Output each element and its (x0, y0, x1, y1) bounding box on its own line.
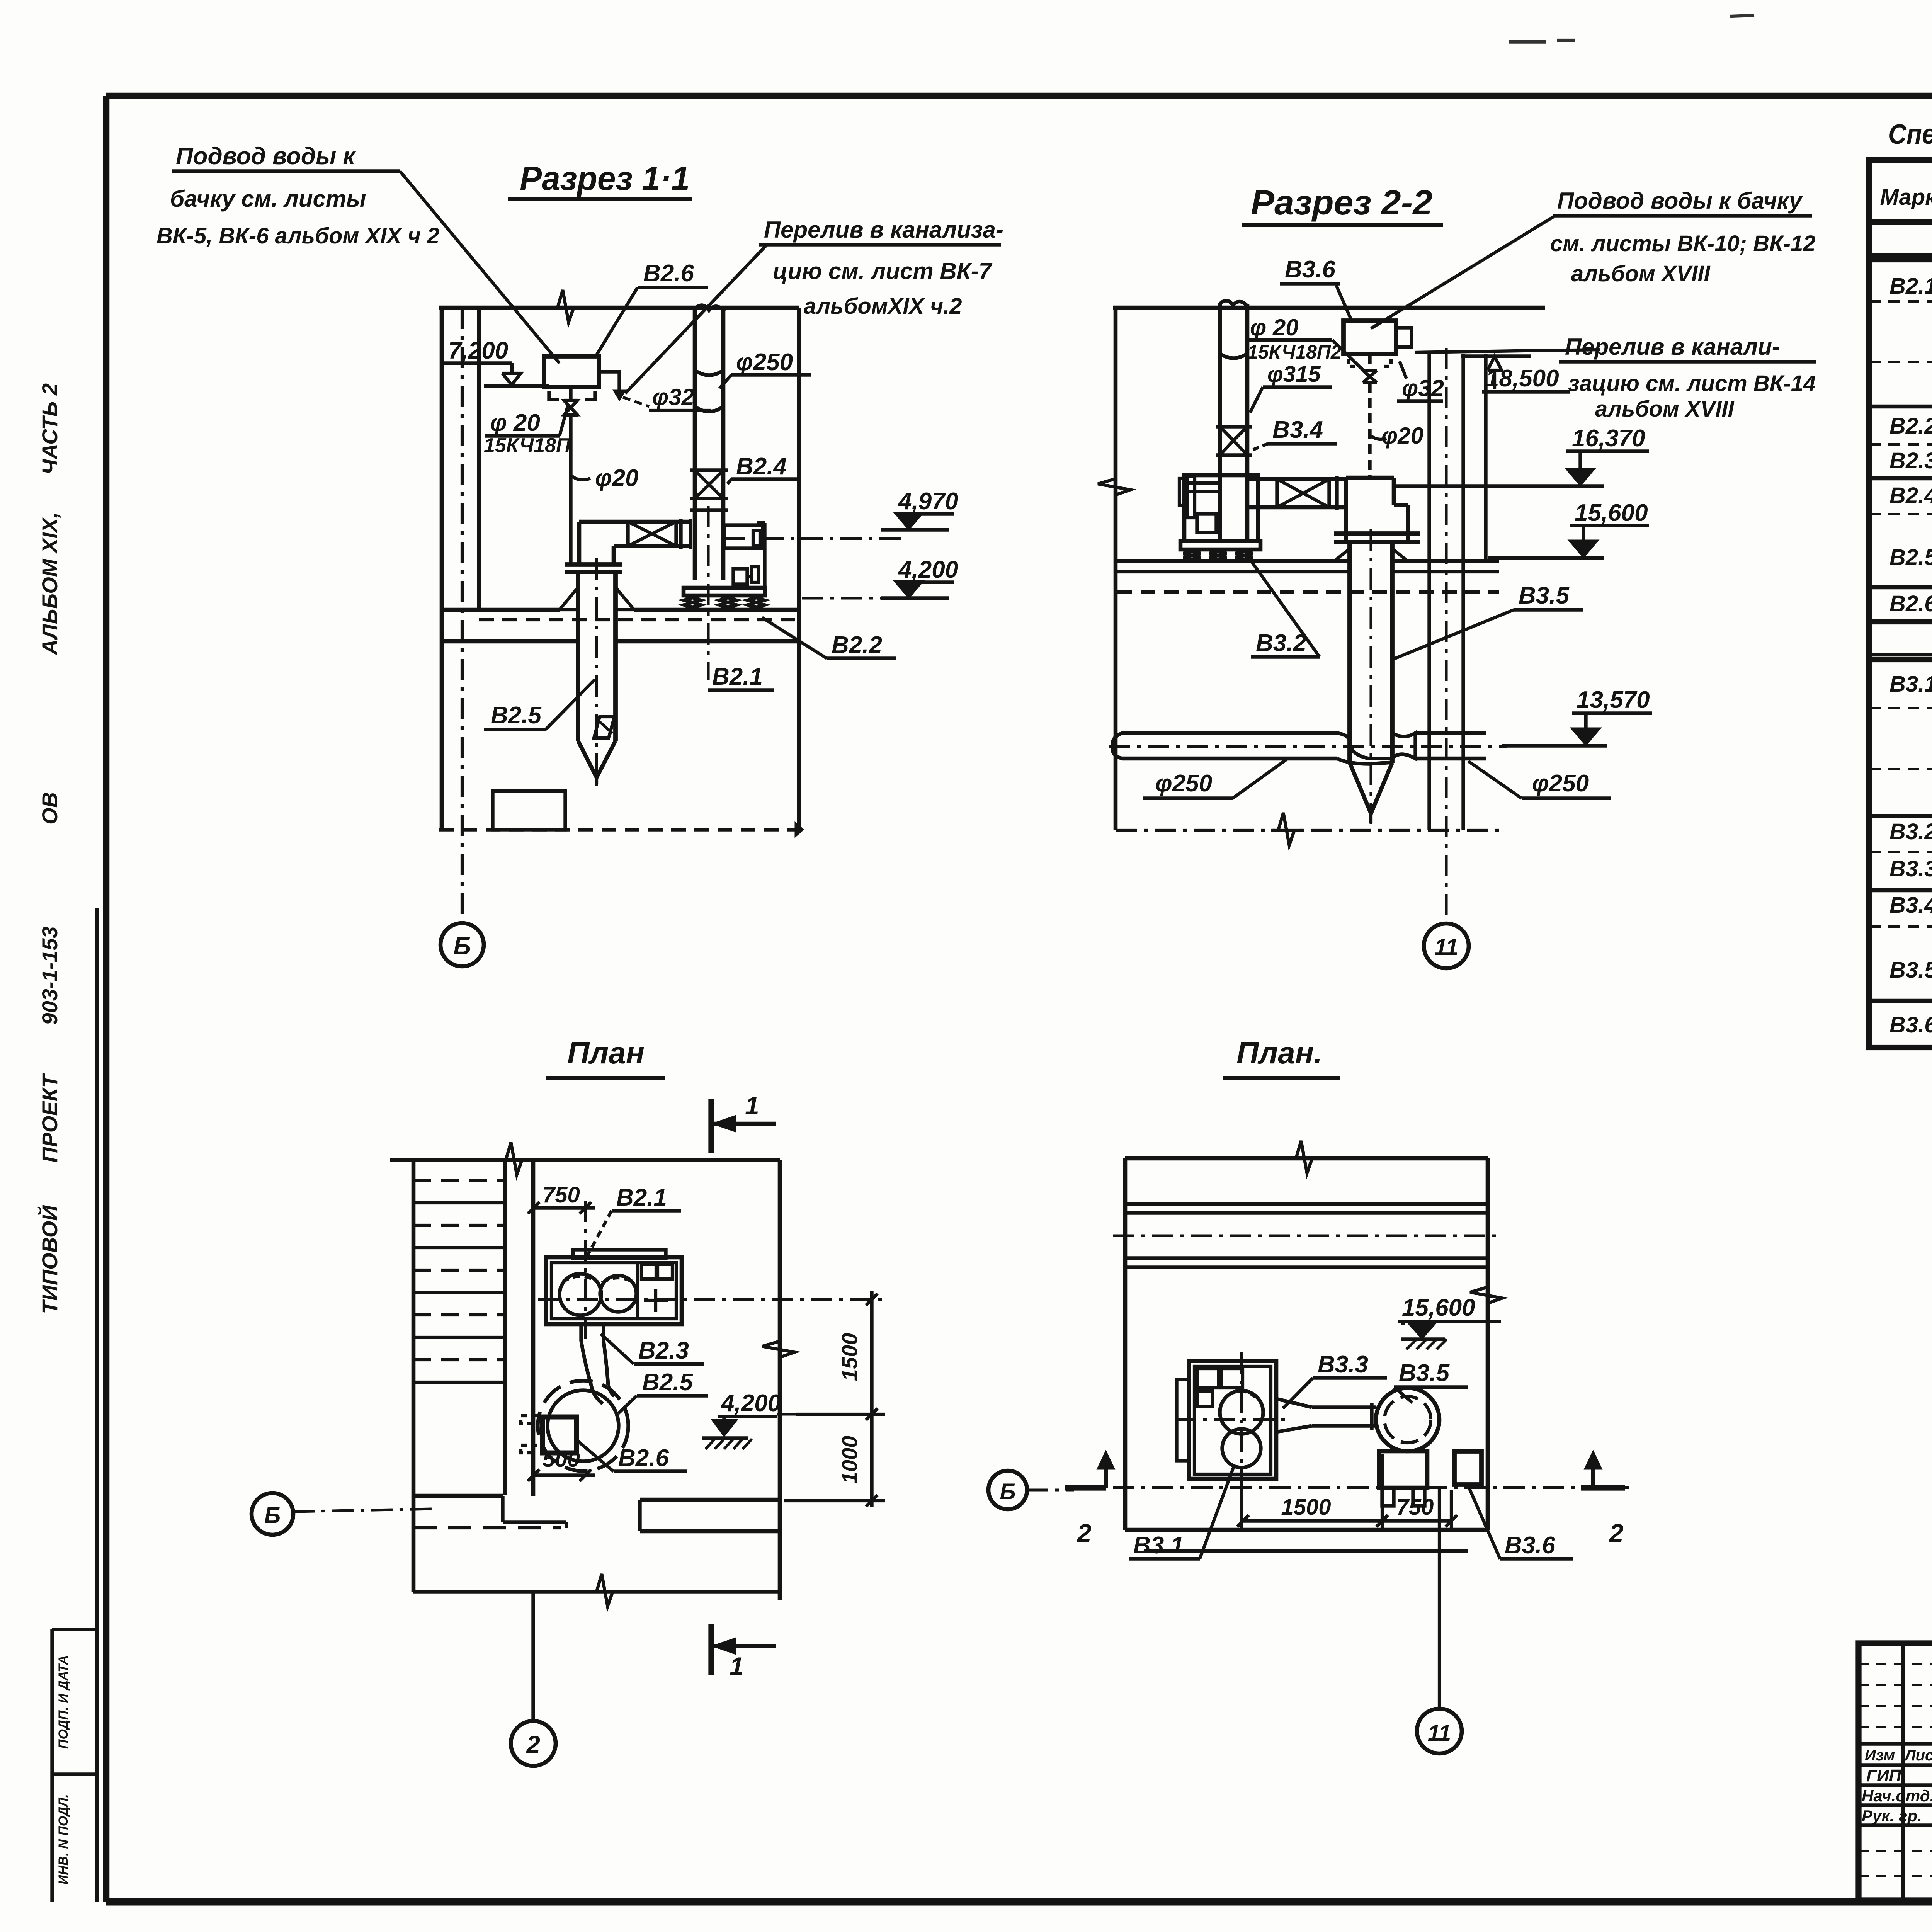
svg-text:Разрез 1·1: Разрез 1·1 (520, 159, 690, 197)
svg-text:ИНВ. N ПОДЛ.: ИНВ. N ПОДЛ. (56, 1794, 71, 1884)
horizontal duct 2 (1247, 477, 1346, 481)
elevation 18,500 (1461, 354, 1531, 358)
svg-text:2: 2 (1609, 1519, 1624, 1547)
svg-text:План: План (567, 1036, 645, 1070)
svg-text:11: 11 (1428, 1721, 1451, 1746)
svg-text:1500: 1500 (1281, 1495, 1331, 1520)
svg-text:1000: 1000 (837, 1436, 862, 1484)
unit centerlines (584, 1201, 587, 1343)
svg-text:Б: Б (264, 1502, 281, 1528)
svg-text:Перелив в канали-: Перелив в канали- (1565, 334, 1780, 360)
svg-text:φ32: φ32 (652, 384, 694, 410)
overflow pipe phi32 (599, 372, 619, 391)
svg-text:В3.1: В3.1 (1889, 672, 1932, 697)
left wall lines (440, 308, 444, 830)
svg-text:1500: 1500 (837, 1333, 862, 1381)
svg-text:4,970: 4,970 (898, 488, 958, 515)
svg-text:15,600: 15,600 (1575, 500, 1648, 526)
cyclone B3.5 body (1347, 542, 1352, 763)
flexible insert B2.4 (690, 468, 728, 472)
svg-text:903-1-153: 903-1-153 (37, 926, 62, 1025)
stray scan dashes top (1509, 40, 1546, 43)
duct to cyclone plan2 (1276, 1399, 1312, 1407)
tank bracket (549, 391, 559, 400)
svg-text:АЛЬБОМ XIX,: АЛЬБОМ XIX, (37, 512, 62, 656)
leader to tank 2 (1371, 216, 1554, 328)
svg-text:В2.5: В2.5 (1889, 545, 1932, 570)
svg-text:Подвод воды к бачку: Подвод воды к бачку (1557, 188, 1803, 214)
svg-text:4,200: 4,200 (898, 556, 958, 583)
svg-text:ПРОЕКТ: ПРОЕКТ (37, 1073, 62, 1163)
svg-text:11: 11 (1434, 934, 1458, 960)
svg-text:2: 2 (1077, 1519, 1092, 1547)
svg-text:ЧАСТЬ 2: ЧАСТЬ 2 (37, 383, 62, 474)
svg-text:В2.5: В2.5 (491, 702, 542, 729)
duct column phi315 (1218, 304, 1222, 540)
building outline plan1 (390, 1158, 780, 1162)
svg-text:В3.2: В3.2 (1256, 630, 1306, 656)
svg-text:φ 20: φ 20 (490, 410, 540, 436)
svg-text:В2.4: В2.4 (736, 453, 787, 480)
building ceiling line (439, 306, 799, 310)
svg-text:зацию см. лист ВК-14: зацию см. лист ВК-14 (1568, 371, 1816, 396)
pipe bulge at cyclone (1337, 733, 1392, 759)
svg-text:φ250: φ250 (736, 349, 793, 376)
bottom line 2 (1116, 829, 1502, 832)
svg-text:Перелив в канализа-: Перелив в канализа- (764, 217, 1003, 243)
stair treads (413, 1179, 505, 1182)
svg-text:ТИПОВОЙ: ТИПОВОЙ (37, 1205, 62, 1314)
fan unit B2.1 (723, 537, 908, 540)
svg-text:В2.6: В2.6 (618, 1445, 669, 1471)
section cut mark 2 left (1065, 1485, 1106, 1490)
section cut mark 1 top (708, 1099, 714, 1153)
svg-text:План.: План. (1236, 1036, 1322, 1070)
svg-text:В3.5: В3.5 (1399, 1360, 1450, 1386)
bottom dashed line (439, 828, 796, 831)
svg-text:1: 1 (730, 1652, 744, 1680)
leader to tank (400, 171, 560, 363)
svg-text:Изм: Изм (1865, 1747, 1895, 1764)
horizontal duct (579, 520, 690, 524)
svg-text:Рук. гр.: Рук. гр. (1862, 1807, 1922, 1825)
fan scrolls (560, 1274, 601, 1315)
svg-text:В2.3: В2.3 (638, 1337, 689, 1364)
ceiling line 2 (1113, 306, 1545, 310)
svg-text:ВК-5, ВК-6 альбом XIX ч 2: ВК-5, ВК-6 альбом XIX ч 2 (156, 223, 439, 248)
svg-text:альбом XVIII: альбом XVIII (1595, 396, 1735, 422)
svg-text:В2.5: В2.5 (642, 1369, 693, 1396)
hatch insert in cyclone (594, 717, 614, 738)
svg-text:В3.3: В3.3 (1318, 1351, 1368, 1378)
svg-text:750: 750 (543, 1182, 580, 1207)
svg-text:В3.5: В3.5 (1889, 957, 1932, 983)
spec table grid (1869, 160, 1932, 1048)
cyclone B2.5 body (576, 572, 580, 741)
left table rows (1859, 1663, 1932, 1665)
fan unit B3.1 plan (1189, 1361, 1276, 1479)
svg-text:18,500: 18,500 (1486, 365, 1559, 392)
outlet box below (1379, 1451, 1427, 1488)
svg-text:В2.1: В2.1 (616, 1184, 667, 1211)
valve 15kch18p (569, 387, 572, 400)
pedestal below floor (493, 791, 565, 830)
svg-text:13,570: 13,570 (1577, 687, 1650, 713)
axis B circle plan2 (988, 1471, 1027, 1509)
svg-text:В3.5: В3.5 (1519, 582, 1570, 609)
grid circle 11 (1424, 923, 1469, 968)
svg-text:ПОДП. И ДАТА: ПОДП. И ДАТА (56, 1655, 71, 1749)
centerlines (1240, 1352, 1243, 1492)
title block left table verticals (1901, 1643, 1905, 1900)
duct column phi250 (693, 309, 697, 580)
vibro-isolators B2.2 (684, 594, 701, 597)
svg-text:Разрез 2-2: Разрез 2-2 (1251, 184, 1432, 222)
right columns (1427, 354, 1431, 830)
floor slab 2 (1117, 559, 1350, 563)
svg-text:В3.6: В3.6 (1285, 256, 1335, 283)
svg-text:Подвод воды к: Подвод воды к (176, 143, 356, 170)
elevation 4,200 (802, 597, 896, 599)
svg-text:В3.6: В3.6 (1505, 1532, 1555, 1559)
svg-text:В2.4: В2.4 (1889, 483, 1932, 508)
bottom walls plan1 (413, 1494, 503, 1498)
duct X brace (626, 522, 629, 546)
cyclone circle B3.5 plan (1376, 1388, 1439, 1451)
svg-text:Б: Б (453, 932, 471, 960)
inner left double line (95, 908, 99, 1902)
grid circle 2 (531, 1592, 535, 1720)
bottom wall plan2 (1125, 1528, 1488, 1532)
svg-text:ГИП: ГИП (1866, 1766, 1902, 1785)
svg-text:15КЧ18П: 15КЧ18П (484, 434, 571, 457)
axis line across (1074, 1486, 1629, 1489)
wall bands (1125, 1202, 1488, 1206)
svg-text:7,200: 7,200 (448, 337, 508, 364)
title block outline (1859, 1643, 1932, 1900)
joint arcs (695, 370, 723, 375)
svg-text:В3.4: В3.4 (1272, 417, 1323, 443)
cyclone circle B2.5 plan (538, 1381, 628, 1471)
pipe phi20 vertical (569, 415, 572, 565)
svg-text:В2.2: В2.2 (1889, 413, 1932, 439)
svg-text:бачку см. листы: бачку см. листы (170, 186, 366, 212)
grid circle B (440, 923, 484, 966)
axis B circle plan1 (252, 1493, 293, 1535)
svg-text:Спецификация отопительно-вент: Спецификация отопительно-вентиляционных … (1888, 119, 1932, 150)
axis 11 line + circle plan2 (1438, 1488, 1441, 1708)
svg-text:4,200: 4,200 (720, 1390, 781, 1417)
svg-text:ОВ: ОВ (37, 792, 62, 825)
bachok B2.6 plan (543, 1417, 577, 1453)
svg-text:В2.1: В2.1 (1889, 274, 1932, 299)
fan unit B3.1 section (1184, 475, 1258, 541)
sheet border frame (106, 93, 1932, 99)
left bottom cells (50, 1629, 54, 1902)
svg-text:Нач.отд.: Нач.отд. (1862, 1787, 1932, 1805)
svg-text:см. листы ВК-10; ВК-12: см. листы ВК-10; ВК-12 (1550, 231, 1816, 256)
tank B3.6 (1344, 321, 1396, 354)
svg-text:15КЧ18П2: 15КЧ18П2 (1247, 341, 1342, 363)
building outline plan2 (1125, 1156, 1488, 1161)
svg-text:Марка: Марка (1880, 185, 1932, 210)
svg-text:В3.1: В3.1 (1133, 1532, 1184, 1559)
bachok B3.6 plan (1454, 1451, 1481, 1485)
axis B centerline (461, 308, 464, 923)
svg-text:Б: Б (1000, 1479, 1015, 1504)
svg-text:цию см. лист ВК-7: цию см. лист ВК-7 (773, 258, 993, 284)
duct down from fan (579, 1324, 583, 1341)
left wall 2 (1114, 308, 1118, 830)
svg-text:В3.2: В3.2 (1889, 819, 1932, 844)
gussets 2 (1334, 549, 1350, 561)
leader from tank overflow (1415, 350, 1600, 352)
svg-text:В2.2: В2.2 (832, 632, 882, 658)
vertical dim 1500/1000 (870, 1291, 873, 1507)
svg-text:В3.3: В3.3 (1889, 856, 1932, 881)
svg-text:В2.1: В2.1 (712, 663, 763, 690)
water tank B2.6 (544, 356, 599, 387)
fan base 2 (1180, 541, 1260, 549)
svg-text:Лист: Лист (1904, 1747, 1932, 1764)
cyclone cone (578, 741, 616, 777)
svg-text:В3.4: В3.4 (1889, 893, 1932, 918)
bottom exterior wall plan1 (413, 1590, 780, 1593)
svg-text:В2.6: В2.6 (1889, 591, 1932, 616)
svg-text:В2.6: В2.6 (643, 260, 694, 287)
horizontal pipe phi250 (1122, 731, 1337, 735)
svg-text:φ20: φ20 (595, 465, 639, 492)
duct end flanges (679, 519, 682, 549)
right boundary (797, 308, 801, 830)
leader to drain (625, 245, 767, 393)
svg-text:15,600: 15,600 (1402, 1294, 1475, 1321)
svg-text:В2.3: В2.3 (1889, 448, 1932, 473)
svg-text:500: 500 (543, 1447, 580, 1472)
fan base plate (684, 588, 765, 595)
section cut mark 1 bottom (708, 1624, 714, 1675)
flexible insert B3.4 (1216, 425, 1252, 428)
dim 1500 / 750 plan2 (1243, 1519, 1451, 1522)
cyclone top flange (565, 562, 622, 567)
inlet box to cyclone (1344, 478, 1348, 540)
svg-text:В3.6: В3.6 (1889, 1012, 1932, 1037)
svg-text:φ32: φ32 (1402, 375, 1444, 401)
floor slab (442, 608, 560, 612)
svg-text:φ315: φ315 (1267, 362, 1321, 387)
fan unit B2.1 plan (573, 1250, 666, 1259)
svg-text:750: 750 (1396, 1495, 1434, 1520)
vibro-isolators B3.2 (1183, 548, 1201, 551)
svg-text:φ250: φ250 (1155, 770, 1212, 797)
support gussets (560, 587, 578, 610)
fan scrolls plan2 (1220, 1391, 1263, 1434)
section cut mark 2 right (1581, 1485, 1625, 1490)
svg-text:16,370: 16,370 (1572, 425, 1645, 452)
svg-text:альбом XVIII: альбом XVIII (1571, 261, 1711, 286)
cyclone centerline (595, 558, 598, 788)
svg-text:2: 2 (526, 1731, 540, 1759)
svg-text:φ20: φ20 (1381, 423, 1423, 449)
svg-text:1: 1 (745, 1091, 759, 1120)
svg-text:φ 20: φ 20 (1250, 315, 1299, 340)
phi20 pipe 2 with valve (1368, 354, 1371, 371)
svg-text:φ250: φ250 (1532, 770, 1589, 797)
motor cell (641, 1264, 656, 1279)
cyclone top flange 2 (1334, 531, 1420, 536)
svg-text:альбомXIX ч.2: альбомXIX ч.2 (804, 294, 962, 319)
